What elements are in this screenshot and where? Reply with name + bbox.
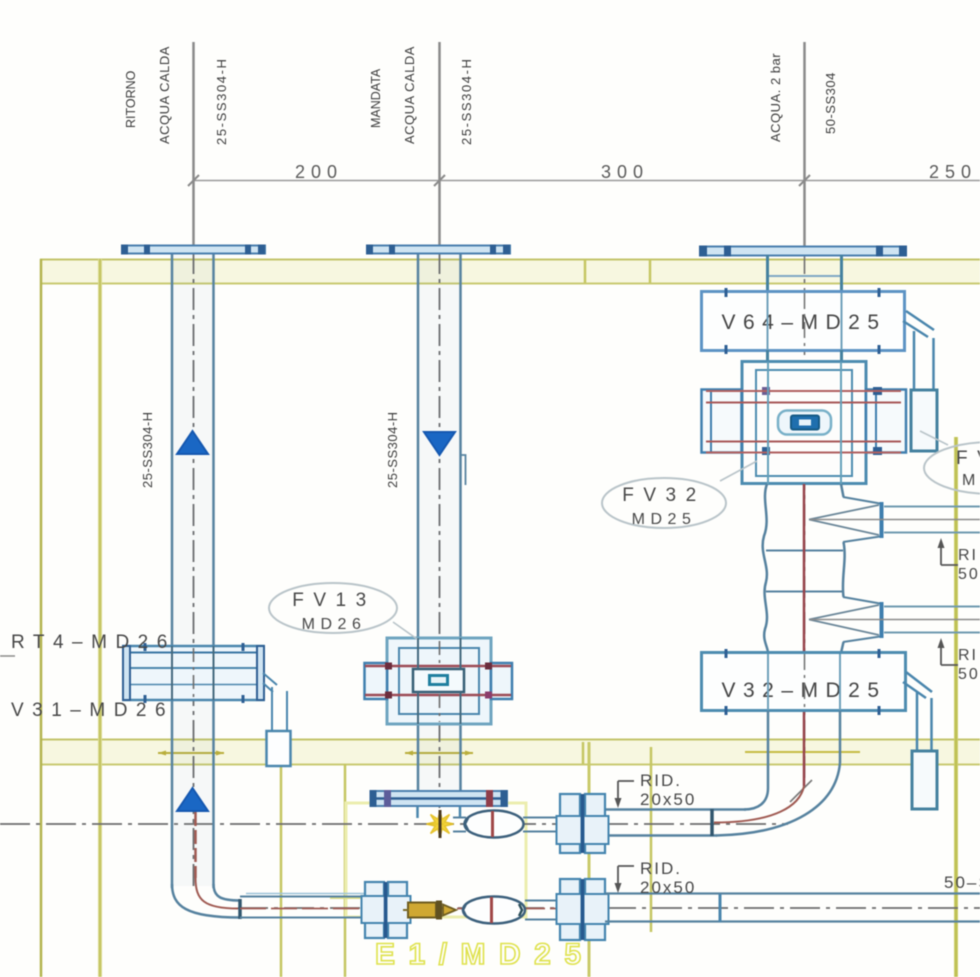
pipe P2 interior tint: [419, 252, 460, 791]
valve FV13-MD26 body: [387, 638, 491, 724]
pipe passage through FV13: [417, 638, 419, 669]
svg-text:RI: RI: [958, 647, 978, 664]
svg-text:25-SS304-H: 25-SS304-H: [459, 57, 474, 145]
neck below V64: [766, 350, 769, 362]
joint lines across drop pipe: [766, 550, 843, 552]
weld tick on row1 header: [710, 809, 714, 836]
svg-text:RT4–MD26: RT4–MD26: [11, 632, 176, 653]
hidden red line through elbow: [714, 786, 804, 823]
pale equipment zone rectangle: [346, 803, 526, 917]
svg-text:300: 300: [601, 162, 649, 182]
pipe P1 interior tint: [173, 252, 213, 886]
svg-text:MANDATA: MANDATA: [369, 68, 383, 128]
reducer cone yellow on row2: [403, 901, 456, 920]
valve RT4 drain stem: [263, 673, 277, 692]
svg-text:250: 250: [929, 162, 977, 182]
stubs below flange: [416, 806, 419, 818]
svg-text:FV3: FV3: [956, 448, 980, 469]
flow arrow up (upper) on pipe P1: [177, 431, 208, 454]
centerline pipe 2 vertical: [438, 42, 441, 248]
yellow section mark across pipe 3: [745, 751, 860, 753]
instrument ellipse on row1: [453, 811, 524, 838]
pipe walls through V32 box: [767, 654, 769, 710]
mixing star symbol on row1: [427, 810, 454, 838]
skid frame top rail line 1: [40, 259, 980, 261]
skid frame left post A: [40, 259, 43, 977]
pipe passage through RT4: [171, 646, 173, 700]
svg-text:20x50: 20x50: [640, 878, 696, 897]
pale band between top rails: [40, 260, 980, 283]
skid frame bottom rail line 1: [40, 739, 980, 741]
svg-text:ACQUA CALDA: ACQUA CALDA: [157, 46, 172, 144]
valve box V32-MD25: [702, 653, 906, 711]
flange pair row2 left: [362, 882, 411, 938]
E1 boundary left post x345: [344, 764, 347, 977]
row1 pipe to flange pair: [523, 817, 559, 819]
elbow pipe P1 to bottom header: [172, 884, 240, 918]
row2 pipe between ellipse and right flange pair: [525, 900, 559, 902]
svg-text:FV13: FV13: [292, 590, 375, 611]
svg-text:V31–MD26: V31–MD26: [11, 700, 174, 721]
svg-text:MD2: MD2: [962, 472, 980, 489]
svg-text:20x50: 20x50: [640, 790, 696, 809]
leader label RID 50 nozzle1: [938, 538, 980, 583]
svg-text:ACQUA. 2 bar: ACQUA. 2 bar: [768, 53, 783, 142]
outlet pipe below V32: [767, 711, 770, 788]
balloon FV32 MD25: [602, 461, 757, 528]
valve RT4 drain end piece: [267, 731, 291, 766]
svg-text:RID.: RID.: [640, 771, 682, 790]
drop pipe below valve wavy left wall: [763, 484, 768, 653]
frame post at x281: [280, 764, 283, 977]
position indicator center: [778, 411, 831, 435]
flange F3 top of pipe P3: [700, 247, 906, 256]
centerline row1 horizontal: [0, 823, 788, 825]
svg-text:25-SS304-H: 25-SS304-H: [140, 411, 155, 488]
svg-text:RID.: RID.: [640, 859, 682, 878]
bottom flange of pipe P2: [371, 791, 507, 806]
flange pair row1: [557, 794, 609, 853]
svg-text:25-SS304-H: 25-SS304-H: [385, 411, 400, 488]
valve FV13 red seat lines: [365, 665, 511, 668]
dimension line: [193, 180, 980, 182]
balloon FV13 MD26: [269, 583, 417, 639]
pale band between bottom rails: [40, 740, 980, 764]
flow arrow up (lower) on pipe P1: [177, 788, 208, 811]
svg-text:50–S: 50–S: [944, 873, 980, 892]
leader label RID 20x50 row2: [615, 859, 697, 897]
valve RT4-MD26 body: [124, 646, 264, 700]
valve FV13 port indicator: [430, 676, 448, 685]
row2 pipe to right edge: [605, 892, 980, 894]
step on right wall of pipe P2: [461, 455, 466, 485]
centerline pipe 1 vertical: [192, 42, 195, 248]
centerline row2 horizontal: [238, 907, 980, 909]
weld tick at elbow outlet: [238, 899, 242, 919]
weld tick on row2 pipe: [719, 894, 722, 922]
balloon FV cut at right edge: [920, 431, 980, 494]
elbow V32 to row1 header: [716, 763, 840, 836]
valve FV13 left wing: [365, 663, 388, 699]
svg-text:ACQUA CALDA: ACQUA CALDA: [402, 46, 417, 144]
svg-text:E1/MD25: E1/MD25: [375, 938, 595, 971]
svg-text:200: 200: [295, 162, 343, 182]
frame post x650: [650, 747, 653, 932]
hidden red line row2: [240, 908, 560, 910]
skid frame right post: [954, 437, 958, 977]
hidden red centerline through valve drop: [803, 484, 806, 786]
yellow section mark across pipe 1: [158, 752, 224, 754]
branch nozzle N2: [843, 597, 880, 642]
dimension tick at pipe2: [434, 175, 445, 186]
flange F1 top of pipe P1: [122, 246, 265, 254]
valve body FV32 outer square: [742, 362, 866, 484]
svg-text:RITORNO: RITORNO: [124, 70, 138, 128]
dimension tick at pipe1: [188, 175, 199, 186]
svg-text:MD26: MD26: [302, 616, 367, 633]
skid frame top rail line 2: [40, 283, 980, 285]
branch nozzle N1: [843, 497, 880, 542]
centerline elbow diagonal dash: [790, 780, 812, 802]
drop pipe right wall segments: [841, 484, 844, 497]
E1 boundary right post x589: [588, 742, 591, 977]
pipe P1 riser walls: [171, 252, 174, 888]
frame tick x585 top: [584, 259, 587, 283]
handle bracket of V32: [903, 672, 932, 698]
skid frame bottom rail line 2: [40, 764, 980, 766]
pipe walls through V64 box: [767, 293, 769, 350]
flow arrow down on pipe P2: [424, 432, 455, 455]
centerline pipe 3 vertical: [803, 42, 806, 250]
valve FV32 red seat lines: [706, 390, 901, 392]
svg-text:MD25: MD25: [632, 511, 697, 528]
dimension tick at pipe3: [799, 175, 810, 186]
svg-text:50: 50: [958, 566, 980, 583]
valve FV13 right wing: [491, 663, 512, 699]
svg-text:50-SS304: 50-SS304: [823, 72, 838, 134]
yellow section mark across pipe 2: [405, 752, 473, 754]
instrument ellipse on row2: [463, 897, 525, 924]
hidden red line in pipe P1: [194, 812, 197, 878]
row1 header pipe wide part: [604, 808, 746, 811]
svg-text:25-SS304-H: 25-SS304-H: [214, 57, 229, 145]
leader label RID 20x50 row1: [615, 771, 697, 809]
bonnet between flange and V64: [766, 255, 769, 291]
pipe passage through valve: [767, 362, 769, 484]
flange F2 top of pipe P2: [367, 246, 510, 254]
centerline dash through FV13: [439, 641, 441, 722]
skid frame left post B: [98, 259, 102, 977]
frame tick x650 top: [649, 259, 652, 283]
actuator box V64-MD25: [702, 292, 905, 351]
short frame stub x583: [582, 742, 585, 764]
flange pair row2 right: [557, 879, 609, 940]
row2 header pipe from elbow: [240, 896, 364, 898]
stub line at left margin: [0, 655, 15, 657]
pale zone bottom edge: [330, 897, 364, 899]
centerline dash through RT4: [193, 648, 195, 698]
svg-text:50: 50: [958, 666, 980, 683]
svg-text:FV32: FV32: [622, 485, 705, 506]
valve FV32 right flange wing: [866, 390, 906, 453]
svg-text:RI: RI: [958, 547, 978, 564]
handle bracket of V64: [903, 311, 934, 337]
valve FV13 inner gate: [413, 669, 464, 692]
leader label RID 50 nozzle2: [938, 638, 980, 683]
valve FV32 left flange wing: [702, 390, 742, 453]
valve body FV32 inner square: [756, 370, 852, 476]
pipe P2 riser walls: [417, 252, 420, 638]
